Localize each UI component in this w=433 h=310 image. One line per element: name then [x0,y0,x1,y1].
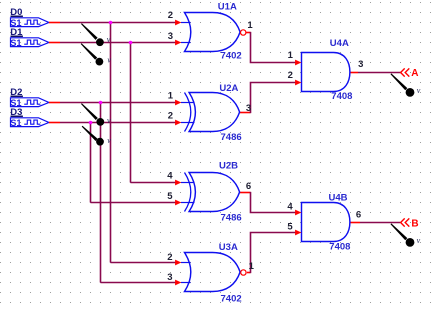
junction on D2 wire [99,101,103,105]
U2A pin 1 number [168,91,174,102]
wire U2B output stub [239,192,250,194]
output terminal B chevrons [401,218,410,226]
U4B pin 5 number [287,222,293,233]
svg-text:3: 3 [167,272,172,283]
output terminal A letter [411,68,418,79]
svg-text:2: 2 [168,111,173,122]
svg-text:v: v [107,116,111,125]
svg-text:S1: S1 [10,38,21,48]
wire D0 red stub [49,22,60,24]
wire D2 vertical to U3A [100,103,102,283]
junction on D0 wire [109,21,113,25]
U1A pin3 arrow [175,40,181,46]
XOR gate U2A [181,93,240,132]
svg-text:v: v [107,55,111,64]
U2B pin 4 number [167,171,173,182]
svg-text:U2B: U2B [219,161,238,172]
U4A pin2 arrow [295,80,301,86]
wire D3 to U2A pin2 [60,122,176,124]
U3A label [219,242,238,253]
wire U3A output stub [247,272,251,274]
svg-text:B: B [411,218,418,229]
U1A pin 3 number [168,31,173,42]
wire U4B out to terminal B [360,222,400,224]
U3A pin 3 number [167,272,172,283]
svg-text:1: 1 [249,261,255,272]
svg-text:6: 6 [246,181,251,192]
wire D3 vertical to U2B [90,123,92,203]
wire to U3A pin3 [101,282,176,284]
svg-text:U1A: U1A [218,1,237,12]
U1A value 7402 [221,50,242,61]
U4A pin1 arrow [295,60,301,66]
svg-text:5: 5 [287,222,293,233]
wire to U2B pin4 [131,182,176,184]
signal source S1 (D0) [10,7,49,28]
svg-text:7408: 7408 [331,91,352,102]
U2B value 7486 [221,212,242,223]
svg-text:U4B: U4B [329,192,348,203]
U4B pin 6 number [356,209,361,220]
U2A pin2 arrow [175,120,181,126]
wire D3 red stub [49,122,60,124]
svg-text:v: v [107,35,111,44]
output terminal B letter [411,218,418,229]
wire U4A output stub [350,72,358,74]
svg-text:2: 2 [168,10,173,21]
probe on D2/D3 wires [81,103,111,126]
U4A pin 1 number [288,50,294,61]
U1A label [218,1,237,12]
probe at output A [391,73,421,96]
svg-text:5: 5 [167,191,173,202]
wire D2 red stub [49,102,60,104]
wire U3A out to U4B pin5 [251,233,296,274]
svg-text:v: v [417,86,421,95]
U1A pin 2 number [168,10,173,21]
probe at output B [391,223,421,246]
wire D1 to U1A pin3 [60,42,176,44]
wire U1A out to U4A pin1 [251,32,296,63]
U3A value 7402 [221,293,242,304]
svg-text:6: 6 [356,209,361,220]
U4A label [330,38,349,49]
U2B label [219,161,238,172]
U2B pin5 arrow [175,200,181,206]
svg-text:U2A: U2A [219,83,238,94]
wire to U3A pin2 [111,262,176,264]
junction on D1 wire [129,41,133,45]
U4B value 7408 [329,242,350,253]
U4A pin 3 number [358,59,363,70]
svg-text:S1: S1 [10,118,21,128]
svg-text:7402: 7402 [221,50,242,61]
U2B pin 5 number [167,191,173,202]
wire D0 vertical to U3A [110,23,112,263]
U4B label [329,192,348,203]
XOR gate U2B [181,173,240,212]
signal source S1 (D1) [10,27,49,48]
U2B pin4 arrow [175,180,181,186]
U2A pin 2 number [168,111,173,122]
svg-text:U4A: U4A [330,38,349,49]
svg-text:1: 1 [168,91,174,102]
svg-text:7402: 7402 [221,293,242,304]
svg-text:2: 2 [167,252,172,263]
signal source S1 (D2) [10,87,49,108]
svg-text:7486: 7486 [221,212,242,223]
svg-text:3: 3 [246,103,251,114]
output terminal A chevrons [401,68,410,76]
U3A pin3 arrow [175,280,181,286]
U3A pin 2 number [167,252,172,263]
wire D2 to U2A pin1 [60,102,176,104]
U4B pin 4 number [287,201,293,212]
U4A pin 2 number [288,70,293,81]
wire U1A output stub [246,32,251,34]
wire U4A out to terminal A [358,72,401,74]
U2A pin 3 number [246,103,251,114]
wire D1 vertical to U2B [130,43,132,183]
wire U2A out to U4A pin2 [251,83,296,114]
NOR gate U3A [181,253,246,292]
svg-text:v: v [107,136,111,145]
U4B pin4 arrow [295,210,301,216]
svg-text:7408: 7408 [329,242,350,253]
svg-text:v: v [417,236,421,245]
svg-text:1: 1 [288,50,294,61]
svg-text:3: 3 [358,59,363,70]
wire D1 red stub [49,42,60,44]
probe on D0/D1 wires [81,23,111,46]
NOR gate U1A [181,13,246,52]
U4B pin5 arrow [295,230,301,236]
U1A pin2 arrow [175,20,181,26]
U3A pin2 arrow [175,260,181,266]
U4A value 7408 [331,91,352,102]
svg-text:3: 3 [168,31,173,42]
svg-text:4: 4 [287,201,293,212]
svg-text:2: 2 [288,70,293,81]
probe below D3 wire [82,126,111,146]
probe below D1 wire [81,43,112,65]
U2A pin1 arrow [175,100,181,106]
U3A pin 1 number [249,261,255,272]
wire D0 to U1A pin2 [60,22,176,24]
wire U2A output stub [239,112,250,114]
svg-text:7486: 7486 [221,132,242,143]
svg-text:4: 4 [167,171,173,182]
wire U2B out to U4B pin4 [251,192,296,213]
AND gate U4A [302,53,350,92]
U2A value 7486 [221,132,242,143]
svg-text:A: A [411,68,418,79]
svg-text:U3A: U3A [219,242,238,253]
U1A pin 1 number [247,20,253,31]
U2A label [219,83,238,94]
wire to U2B pin5 [91,202,176,204]
junction on D3 wire [89,121,93,125]
wire U4B output stub [350,222,360,224]
U2B pin 6 number [246,181,251,192]
AND gate U4B [302,203,350,242]
svg-text:1: 1 [247,20,253,31]
signal source S1 (D3) [10,107,49,128]
